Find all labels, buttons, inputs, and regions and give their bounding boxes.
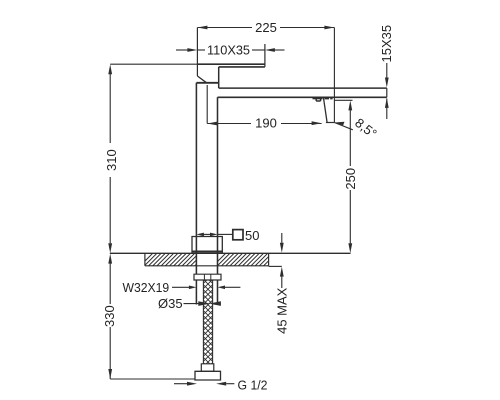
counter deck left edge: [144, 253, 146, 265]
label G 1/2 leaders: [174, 383, 187, 385]
handle base left edge: [196, 28, 198, 77]
G 1/2 end nut: [195, 371, 221, 380]
dimension 250: [349, 110, 351, 243]
counter deck right edge: [268, 253, 270, 265]
dimension 310: [109, 74, 111, 243]
dimension 45 MAX: [269, 233, 282, 288]
mounting nut facets: [204, 274, 210, 280]
handle base chamfer: [197, 76, 206, 83]
spout tip end: [386, 88, 388, 97]
svg-text:15X35: 15X35: [379, 25, 394, 63]
dimension 225: [197, 28, 334, 123]
base block escutcheon: [192, 237, 222, 254]
mounting nut: [194, 274, 221, 280]
svg-text:250: 250: [343, 168, 358, 190]
lever right end: [264, 44, 266, 67]
svg-text:330: 330: [102, 305, 117, 327]
svg-text:Ø35: Ø35: [158, 296, 183, 311]
body column left edge: [195, 83, 197, 305]
braided hose right edge: [212, 280, 214, 364]
lever bottom edge: [219, 66, 265, 68]
label diameter 35 leader: [184, 303, 201, 305]
aerator top lip: [313, 97, 323, 99]
faucet lever top edge with 310 extension line: [110, 63, 197, 65]
label W32X19 leader: [172, 286, 189, 288]
spout top edge: [219, 87, 387, 89]
braided hose crosshatch: [198, 269, 218, 386]
dimension 190 extension line (faucet axis): [206, 85, 208, 124]
base block lower line: [192, 250, 222, 252]
svg-text:110X35: 110X35: [207, 43, 250, 58]
dimension 110X35: [176, 49, 285, 51]
svg-text:310: 310: [104, 149, 119, 171]
counter deck hatching: [140, 252, 282, 266]
body column right edge: [217, 97, 219, 304]
svg-text:45 MAX: 45 MAX: [275, 287, 290, 334]
angle leader 8,5: [334, 123, 352, 130]
svg-text:190: 190: [255, 116, 277, 131]
svg-text:50: 50: [245, 228, 259, 243]
handle base bottom: [196, 82, 218, 84]
aerator notch: [316, 97, 320, 101]
svg-text:W32X19: W32X19: [123, 280, 170, 295]
counter deck bottom line: [145, 265, 269, 267]
dimension 190: [207, 123, 321, 125]
handle base right edge: [218, 67, 220, 88]
braided hose left edge: [202, 280, 204, 364]
spout bottom edge: [218, 96, 387, 98]
svg-text:G 1/2: G 1/2: [238, 378, 268, 393]
dimension square 50: [203, 233, 233, 235]
dimension 15X35: [386, 63, 388, 119]
aerator bottom edge: [326, 122, 335, 124]
hose collar: [201, 364, 214, 372]
svg-text:225: 225: [255, 20, 277, 35]
aerator tilted left edge (8.5 deg): [323, 97, 327, 122]
dimension 330: [110, 264, 195, 380]
dimension 250 extension line: [334, 99, 352, 101]
counter deck top line with extensions: [110, 252, 351, 254]
